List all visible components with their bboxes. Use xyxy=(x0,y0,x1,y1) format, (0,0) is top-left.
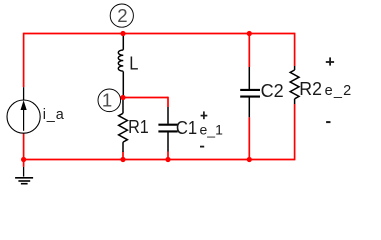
svg-text:2: 2 xyxy=(117,5,127,26)
svg-text:1: 1 xyxy=(102,90,112,111)
wire node1 to C1 horizontal xyxy=(123,97,168,99)
resistor R2 xyxy=(290,66,299,104)
wire R2 vertical upper xyxy=(294,33,296,66)
wire C2 vertical upper xyxy=(248,34,250,68)
junction R1 bottom xyxy=(120,157,125,162)
R2 minus sign xyxy=(326,121,330,123)
junction C2 top xyxy=(247,31,252,36)
wire bottom horizontal xyxy=(24,159,295,161)
junction node 1 xyxy=(120,95,125,100)
svg-text:C1: C1 xyxy=(176,117,197,138)
junction C2 bottom xyxy=(247,157,252,162)
wire ground stub red xyxy=(23,160,25,167)
inductor L xyxy=(118,35,123,98)
svg-text:R2: R2 xyxy=(299,78,322,99)
wire C1 vertical lower xyxy=(167,152,169,160)
capacitor C2 xyxy=(240,67,260,117)
node 2 circle xyxy=(110,4,133,27)
wire R2 vertical lower xyxy=(294,104,296,160)
junction node 2 top xyxy=(120,31,125,36)
wire C1 vertical upper xyxy=(167,97,169,107)
resistor R1 xyxy=(119,98,128,153)
svg-text:L: L xyxy=(129,53,138,74)
svg-text:e_1: e_1 xyxy=(200,122,224,138)
svg-text:R1: R1 xyxy=(128,116,149,137)
R2 plus sign xyxy=(326,57,334,65)
ground xyxy=(15,167,33,184)
C1 plus sign xyxy=(201,111,208,119)
capacitor C1 xyxy=(158,107,177,152)
svg-text:C2: C2 xyxy=(261,80,284,101)
junction C1 bottom xyxy=(165,157,170,162)
svg-text:e_2: e_2 xyxy=(325,83,353,99)
wire R1 bottom red xyxy=(122,152,124,160)
junction ground xyxy=(21,157,26,162)
current source i_a xyxy=(7,87,40,133)
C1 minus sign xyxy=(200,146,204,148)
node 1 circle xyxy=(98,89,121,112)
wire left vertical upper xyxy=(23,33,25,87)
wire top horizontal xyxy=(24,33,295,35)
wire left vertical lower xyxy=(23,133,25,160)
wire C2 vertical lower xyxy=(248,117,250,159)
svg-text:i_a: i_a xyxy=(43,107,65,123)
